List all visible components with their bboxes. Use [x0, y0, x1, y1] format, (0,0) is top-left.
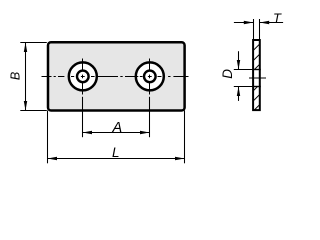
dimension B extension line top — [20, 42, 47, 44]
svg-text:A: A — [111, 120, 122, 136]
dimension D extension line upper — [234, 69, 253, 71]
hole 2 inner circle — [144, 71, 156, 83]
plate front view body — [48, 42, 185, 110]
svg-text:B: B — [8, 72, 22, 80]
dimension L line — [48, 158, 185, 160]
dimension B extension line bottom — [20, 110, 47, 112]
dimension B line — [25, 43, 27, 111]
dimension L extension line right — [184, 111, 186, 164]
dimension T line left segment — [234, 22, 253, 24]
dimension T extension line left — [253, 19, 255, 40]
dimension T arrow right — [260, 21, 270, 24]
svg-text:D: D — [220, 69, 235, 79]
dimension L extension line left — [47, 111, 49, 164]
dimension D arrow upper — [237, 60, 240, 70]
hole lower edge in section — [252, 86, 261, 88]
hole 1 vertical centerline — [82, 59, 84, 95]
dimension L arrow right — [175, 157, 185, 160]
dimension A line — [83, 132, 150, 134]
svg-text:L: L — [112, 145, 120, 160]
hole 1 outer circle — [69, 62, 97, 90]
dimension A arrow right — [140, 131, 150, 134]
hole 2 vertical centerline — [149, 59, 151, 95]
dimension T arrow left — [244, 21, 254, 24]
dimension A arrow left — [83, 131, 93, 134]
side section outline — [253, 40, 260, 110]
dimension D line lower segment — [238, 87, 240, 101]
dimension A extension line right — [149, 97, 151, 137]
dimension L arrow left — [48, 157, 58, 160]
side section hatching — [244, 26, 268, 121]
hole 1 inner circle — [77, 71, 89, 83]
dimension A extension line left — [82, 97, 84, 137]
dimension B arrow down — [24, 101, 27, 111]
dimension B arrow up — [24, 43, 27, 53]
hole upper edge in section — [252, 69, 261, 71]
horizontal centerline through holes — [42, 76, 189, 78]
hole 2 outer circle — [136, 62, 164, 90]
dimension D extension line lower — [234, 86, 253, 88]
section centerline — [249, 77, 266, 79]
dimension D line upper segment — [238, 51, 240, 69]
dimension D arrow lower — [237, 87, 240, 97]
dimension T extension line right — [259, 19, 261, 40]
dimension T line right segment — [260, 22, 283, 24]
svg-text:T: T — [273, 11, 282, 26]
